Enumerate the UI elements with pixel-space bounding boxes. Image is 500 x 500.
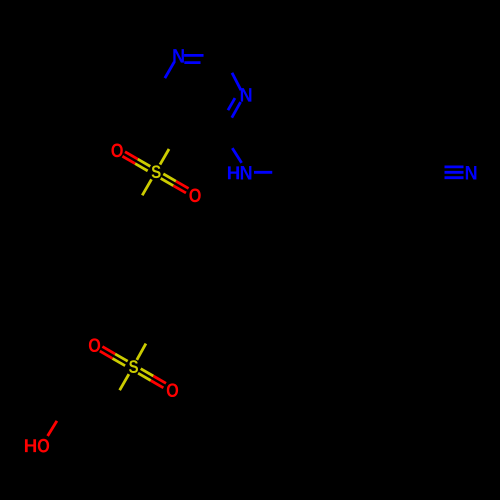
atom label O2a bbox=[89, 338, 100, 352]
atom label HO (O) bbox=[38, 439, 49, 453]
atom label O1b bbox=[189, 189, 200, 203]
bond CH2-S2 (S half, yellow) bbox=[120, 374, 129, 390]
double bond S1=O1a (yellow/red) bbox=[122, 152, 150, 171]
bond N1=C2 inner line (N half, blue) bbox=[184, 61, 200, 64]
atom label N1 bbox=[173, 49, 184, 62]
triple bond C#N nitrile (N half, blue) bbox=[445, 167, 464, 178]
atom label NH (H) bbox=[228, 166, 239, 179]
atom label O2b bbox=[167, 383, 178, 397]
atom label N3 bbox=[241, 88, 252, 101]
atom label S1 bbox=[152, 165, 161, 178]
double bond S2=O2b (yellow/red) bbox=[138, 369, 166, 388]
atom label S2 bbox=[129, 360, 138, 373]
bond S1-CH3 (S half, yellow) bbox=[142, 179, 151, 195]
bond C5-S1 (S half, yellow) bbox=[160, 149, 169, 165]
atom label O1a bbox=[111, 144, 122, 158]
bond S2-CH3 (S half, yellow) bbox=[137, 344, 146, 360]
bond HO-CH2 (O half, red) bbox=[48, 421, 57, 436]
bond C6-N1 (N half, blue) bbox=[165, 62, 174, 78]
bond NH-C1' (N half, blue) bbox=[254, 171, 272, 174]
double bond S1=O1b (yellow/red) bbox=[161, 174, 189, 193]
bond C4-NH (N half, blue) bbox=[232, 148, 241, 163]
bond N1=C2 main line (N half, blue) bbox=[184, 54, 203, 57]
atom label HO (H) bbox=[25, 439, 36, 452]
atom label NH (N) bbox=[241, 166, 252, 179]
double bond S2=O2a (yellow/red) bbox=[100, 347, 128, 366]
bond C2-N3 (N half, blue) bbox=[232, 73, 241, 90]
bond N3=C4 inner line (N half, blue) bbox=[228, 98, 235, 110]
bond N3=C4 main line (N half, blue) bbox=[232, 102, 241, 118]
atom label nitrile N bbox=[466, 166, 477, 179]
